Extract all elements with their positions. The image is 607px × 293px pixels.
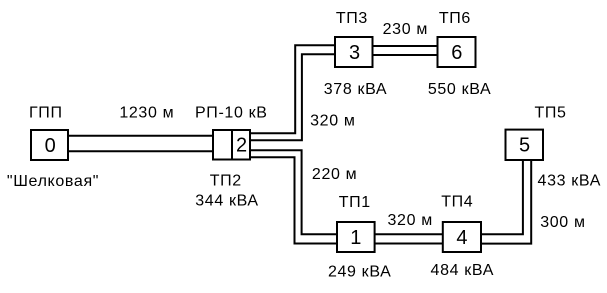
svg-text:ГПП: ГПП [29,105,63,122]
svg-text:300 м: 300 м [540,214,585,231]
svg-text:5: 5 [519,135,530,157]
svg-text:ТП2: ТП2 [210,173,242,190]
svg-text:ТП5: ТП5 [534,105,566,122]
svg-text:"Шелковая": "Шелковая" [7,173,99,190]
svg-text:ТП3: ТП3 [336,10,368,27]
svg-text:6: 6 [451,42,462,64]
svg-text:ТП4: ТП4 [441,194,473,211]
svg-text:РП-10 кВ: РП-10 кВ [195,105,268,122]
svg-text:249 кВА: 249 кВА [328,264,392,281]
svg-text:220 м: 220 м [312,166,357,183]
svg-text:ТП1: ТП1 [339,194,371,211]
svg-text:378 кВА: 378 кВА [324,81,388,98]
svg-text:1230 м: 1230 м [119,105,174,122]
svg-text:ТП6: ТП6 [439,10,471,27]
svg-text:2: 2 [236,135,247,157]
svg-text:3: 3 [349,42,360,64]
svg-text:433 кВА: 433 кВА [538,173,602,190]
svg-text:320 м: 320 м [388,212,433,229]
svg-text:344 кВА: 344 кВА [195,193,259,210]
svg-text:484 кВА: 484 кВА [431,262,495,279]
svg-text:0: 0 [45,135,56,157]
svg-text:4: 4 [456,227,467,249]
svg-text:1: 1 [350,227,361,249]
svg-text:550 кВА: 550 кВА [428,81,492,98]
svg-text:230 м: 230 м [383,21,428,38]
svg-text:320 м: 320 м [310,112,355,129]
